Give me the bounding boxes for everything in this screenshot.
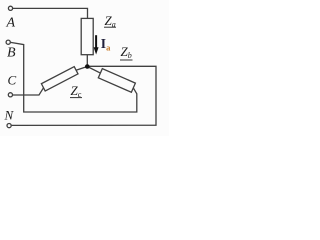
svg-text:N: N: [4, 107, 15, 122]
neutral wire N to right rail up to node: [12, 66, 156, 125]
svg-text:C: C: [8, 72, 17, 87]
node (star point): [85, 64, 90, 69]
terminal N: [7, 124, 11, 128]
wire B down and along bottom loop to Zb: [11, 42, 137, 112]
svg-text:B: B: [7, 46, 16, 61]
terminal A: [8, 6, 12, 10]
wire Zc to node: [76, 67, 87, 71]
resistor Za: [81, 18, 93, 54]
resistor Zb: [98, 69, 135, 93]
wire Za to node: [86, 55, 88, 65]
terminal B: [6, 40, 10, 44]
terminal C: [8, 93, 12, 97]
current arrow Ia: [94, 35, 99, 54]
svg-text:A: A: [6, 15, 16, 30]
wire node to Zb: [87, 67, 100, 74]
wire C to Zc: [13, 88, 44, 95]
resistor Zc: [41, 67, 78, 91]
wire A to Za top: [13, 8, 88, 18]
